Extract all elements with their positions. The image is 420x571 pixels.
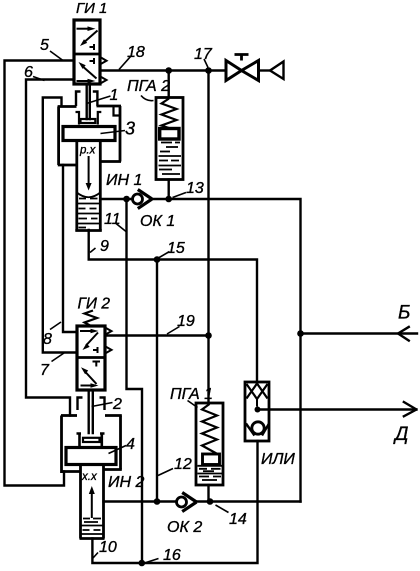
svg-text:ИН 1: ИН 1 <box>106 172 142 189</box>
svg-text:х.х: х.х <box>81 471 98 483</box>
svg-text:Б: Б <box>398 303 410 324</box>
svg-text:18: 18 <box>127 44 145 61</box>
svg-text:2: 2 <box>112 396 122 413</box>
svg-text:8: 8 <box>43 331 52 348</box>
svg-text:6: 6 <box>24 64 33 81</box>
svg-text:19: 19 <box>177 313 195 330</box>
svg-text:4: 4 <box>126 436 135 453</box>
svg-text:14: 14 <box>229 511 247 528</box>
svg-text:9: 9 <box>100 238 109 255</box>
svg-text:3: 3 <box>125 119 135 139</box>
svg-text:16: 16 <box>163 547 181 564</box>
svg-text:17: 17 <box>194 46 213 63</box>
svg-text:13: 13 <box>186 180 204 197</box>
svg-text:Д: Д <box>393 424 408 445</box>
svg-text:ИН 2: ИН 2 <box>108 474 144 491</box>
svg-text:15: 15 <box>167 240 185 257</box>
svg-text:7: 7 <box>40 362 50 379</box>
svg-text:1: 1 <box>110 87 119 104</box>
svg-text:ГИ 1: ГИ 1 <box>76 0 107 17</box>
svg-text:10: 10 <box>99 539 117 556</box>
svg-text:р.х: р.х <box>79 145 97 157</box>
svg-text:11: 11 <box>104 211 121 228</box>
svg-text:ПГА 2: ПГА 2 <box>127 78 170 95</box>
svg-text:ОК 2: ОК 2 <box>167 519 202 536</box>
svg-text:12: 12 <box>174 456 192 473</box>
svg-text:ИЛИ: ИЛИ <box>261 451 295 468</box>
svg-text:ПГА 1: ПГА 1 <box>170 386 213 403</box>
svg-text:5: 5 <box>40 37 49 54</box>
svg-text:ГИ 2: ГИ 2 <box>78 296 111 313</box>
svg-text:ОК 1: ОК 1 <box>140 213 175 230</box>
